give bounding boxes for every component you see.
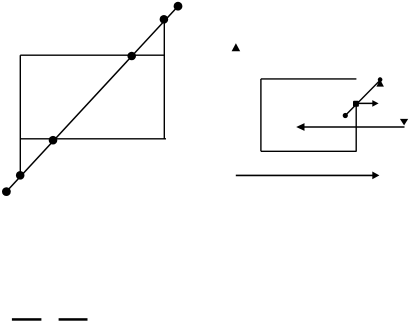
dot on bottom edge crossing <box>49 136 58 145</box>
circle at upper end of right diagonal <box>378 77 383 82</box>
dot top-right end of diagonal <box>174 2 183 11</box>
bottom long right arrow head <box>372 172 379 180</box>
left box top edge <box>20 54 164 56</box>
dot bottom-left end of diagonal <box>2 187 11 196</box>
bottom bar 2 <box>59 318 88 321</box>
square node dot <box>353 101 359 107</box>
right box left edge <box>260 79 262 151</box>
small dot lower end <box>343 113 348 118</box>
right box top edge <box>261 78 357 80</box>
left box left edge (extended down to diagonal) <box>19 55 21 175</box>
up triangle marker <box>232 43 241 51</box>
up triangle under circle <box>376 80 384 87</box>
small right arrow head <box>372 100 378 107</box>
diagonal line <box>6 6 178 191</box>
long left arrow head <box>296 123 304 131</box>
bottom long right arrow shaft <box>236 174 373 176</box>
down triangle marker <box>400 119 408 126</box>
small right arrow shaft <box>356 102 373 104</box>
right diagonal segment <box>345 80 380 115</box>
dot on left edge extension <box>16 171 25 180</box>
left box right edge (extended up to diagonal) <box>163 19 165 139</box>
bottom bar 1 <box>12 318 42 321</box>
right box bottom edge <box>261 150 357 152</box>
right box partial right edge <box>355 104 357 152</box>
dot on right edge extension <box>160 15 169 24</box>
dot on top edge crossing <box>127 52 136 61</box>
left box bottom edge <box>20 138 166 140</box>
long left arrow shaft <box>304 126 405 128</box>
